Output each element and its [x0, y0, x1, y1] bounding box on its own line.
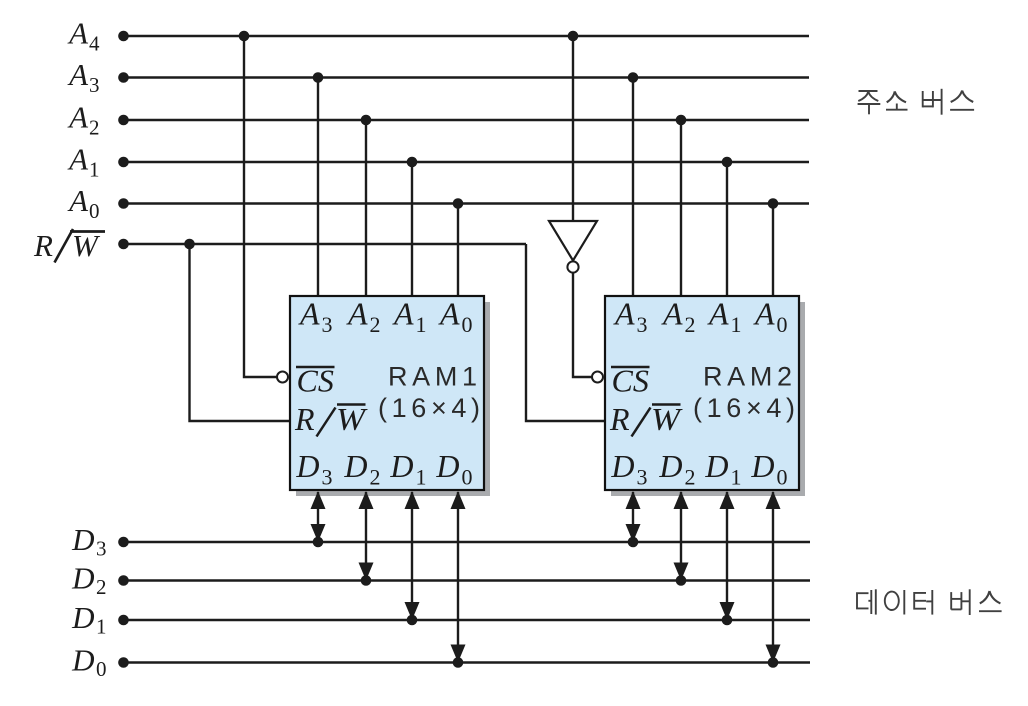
- svg-text:W: W: [72, 228, 101, 263]
- inverter U1 output bubble: [567, 261, 578, 272]
- svg-text:W: W: [336, 401, 369, 437]
- svg-text:D: D: [389, 448, 413, 484]
- node D0 bus start dot: [118, 657, 129, 668]
- RAM chip RAM1 shadow: [296, 302, 490, 496]
- svg-text:A: A: [67, 100, 89, 135]
- node junction A4 / inverter input: [568, 31, 579, 42]
- svg-text:D: D: [704, 448, 728, 484]
- svg-text:D: D: [71, 522, 94, 557]
- node A2 bus start dot: [118, 115, 129, 126]
- node junction A2 / RAM2: [676, 115, 687, 126]
- wire A1 address bus line: [123, 161, 810, 163]
- svg-text:1: 1: [96, 615, 107, 639]
- svg-text:2: 2: [685, 312, 696, 337]
- node A4 bus start dot: [118, 31, 129, 42]
- wire A0 tap to RAM2 pin A0: [772, 204, 774, 299]
- wire RAM2 D0 bidirectional data arrow: [766, 491, 781, 663]
- svg-text:A: A: [67, 142, 89, 177]
- wire RAM2 D1 bidirectional data arrow: [720, 491, 735, 620]
- svg-text:1: 1: [731, 465, 742, 490]
- node junction A1 / RAM1: [407, 157, 418, 168]
- wire D1 data bus line: [123, 619, 811, 621]
- label R/W-bar signal name: [33, 228, 105, 263]
- wire R/W-bar down to RAM1 R/W input: [190, 244, 293, 421]
- svg-text:D: D: [71, 643, 94, 678]
- svg-text:2: 2: [89, 116, 100, 140]
- svg-text:A: A: [346, 296, 368, 332]
- node junction D0 / RAM2: [768, 657, 779, 668]
- svg-text:A: A: [67, 16, 89, 51]
- svg-text:3: 3: [322, 312, 333, 337]
- node junction R/W-bar / RAM1 tap: [184, 239, 195, 250]
- svg-text:D: D: [750, 448, 774, 484]
- wire RAM1 D3 bidirectional data arrow: [311, 491, 326, 542]
- svg-text:1: 1: [731, 312, 742, 337]
- svg-text:D: D: [435, 448, 459, 484]
- wire D3 data bus line: [123, 541, 811, 543]
- node A1 bus start dot: [118, 157, 129, 168]
- inverter U1 triangle: [549, 221, 597, 261]
- svg-text:2: 2: [685, 465, 696, 490]
- node junction D2 / RAM1: [361, 575, 372, 586]
- wire A4 down to inverter: [572, 36, 574, 222]
- node junction A0 / RAM1: [453, 198, 464, 209]
- svg-text:A: A: [707, 296, 729, 332]
- svg-text:0: 0: [89, 199, 100, 223]
- node junction D3 / RAM2: [628, 537, 639, 548]
- svg-text:A: A: [298, 296, 320, 332]
- wire inverter output to RAM2 CS-bar input: [573, 273, 592, 377]
- node R/W-bar start dot: [118, 239, 129, 250]
- svg-text:0: 0: [777, 465, 788, 490]
- wire A1 tap to RAM1 pin A1: [411, 162, 413, 298]
- pin label R/W-bar of RAM2: [609, 401, 684, 437]
- svg-text:A: A: [392, 296, 414, 332]
- wire A3 tap to RAM2 pin A3: [632, 78, 634, 299]
- svg-text:R: R: [294, 401, 315, 437]
- svg-text:A: A: [438, 296, 460, 332]
- svg-text:A: A: [613, 296, 635, 332]
- wire A1 tap to RAM2 pin A1: [726, 162, 728, 298]
- svg-text:D: D: [610, 448, 634, 484]
- svg-text:D: D: [71, 600, 94, 635]
- svg-text:R: R: [33, 228, 53, 263]
- wire R/W-bar control line: [123, 243, 527, 245]
- wire A0 tap to RAM1 pin A0: [457, 204, 459, 299]
- wire RAM1 D1 bidirectional data arrow: [405, 491, 420, 620]
- wire A3 tap to RAM1 pin A3: [317, 78, 319, 299]
- node D2 bus start dot: [118, 575, 129, 586]
- node junction A1 / RAM2: [722, 157, 733, 168]
- label data bus (Korean: deiteo beoseu): [857, 589, 1002, 615]
- svg-text:2: 2: [370, 465, 381, 490]
- wire RAM1 D2 bidirectional data arrow: [359, 491, 374, 581]
- node junction D2 / RAM2: [676, 575, 687, 586]
- svg-text:0: 0: [96, 657, 107, 681]
- node junction A0 / RAM2: [768, 198, 779, 209]
- node junction D0 / RAM1: [453, 657, 464, 668]
- svg-text:D: D: [658, 448, 682, 484]
- wire RAM2 D3 bidirectional data arrow: [626, 491, 641, 542]
- RAM chip RAM2 shadow: [611, 302, 805, 496]
- node A3 bus start dot: [118, 72, 129, 83]
- svg-text:D: D: [71, 561, 94, 596]
- svg-text:3: 3: [637, 465, 648, 490]
- svg-text:A: A: [753, 296, 775, 332]
- wire R/W-bar down to RAM2 R/W input: [526, 244, 607, 421]
- pin bubble CS-bar of RAM2: [592, 372, 603, 383]
- wire A3 address bus line: [123, 76, 810, 78]
- svg-text:0: 0: [462, 312, 473, 337]
- wire RAM2 D2 bidirectional data arrow: [674, 491, 689, 581]
- node junction A3 / RAM1: [313, 72, 324, 83]
- svg-text:A: A: [67, 183, 89, 218]
- wire A2 tap to RAM2 pin A2: [680, 120, 682, 298]
- svg-text:R: R: [609, 401, 630, 437]
- wire A2 address bus line: [123, 119, 810, 121]
- svg-text:1: 1: [416, 312, 427, 337]
- svg-text:3: 3: [89, 73, 100, 97]
- node junction A4 / RAM1 CS tap: [239, 31, 250, 42]
- svg-text:0: 0: [777, 312, 788, 337]
- wire A0 address bus line: [123, 202, 810, 204]
- wire D0 data bus line: [123, 661, 811, 663]
- svg-text:D: D: [295, 448, 319, 484]
- svg-text:A: A: [661, 296, 683, 332]
- RAM chip RAM2 body: [605, 296, 799, 490]
- pin bubble CS-bar of RAM1: [277, 372, 288, 383]
- node A0 bus start dot: [118, 198, 129, 209]
- wire D2 data bus line: [123, 579, 811, 581]
- wire A2 tap to RAM1 pin A2: [365, 120, 367, 298]
- RAM chip RAM1 body: [290, 296, 484, 490]
- node junction A2 / RAM1: [361, 115, 372, 126]
- wire A4 down to RAM1 CS-bar input: [244, 36, 277, 377]
- node D3 bus start dot: [118, 537, 129, 548]
- wire A4 address bus line: [123, 35, 810, 37]
- label address bus (Korean: juso beoseu): [858, 89, 975, 115]
- svg-text:3: 3: [322, 465, 333, 490]
- svg-text:4: 4: [89, 32, 100, 56]
- svg-text:0: 0: [462, 465, 473, 490]
- svg-text:A: A: [67, 57, 89, 92]
- svg-text:W: W: [651, 401, 684, 437]
- node junction D3 / RAM1: [313, 537, 324, 548]
- node D1 bus start dot: [118, 615, 129, 626]
- node junction A3 / RAM2: [628, 72, 639, 83]
- node junction D1 / RAM1: [407, 615, 418, 626]
- svg-text:D: D: [343, 448, 367, 484]
- svg-text:1: 1: [89, 158, 100, 182]
- svg-text:3: 3: [96, 537, 107, 561]
- svg-text:1: 1: [416, 465, 427, 490]
- svg-text:2: 2: [96, 575, 107, 599]
- wire RAM1 D0 bidirectional data arrow: [451, 491, 466, 663]
- svg-text:3: 3: [637, 312, 648, 337]
- pin label R/W-bar of RAM1: [294, 401, 369, 437]
- svg-text:2: 2: [370, 312, 381, 337]
- node junction D1 / RAM2: [722, 615, 733, 626]
